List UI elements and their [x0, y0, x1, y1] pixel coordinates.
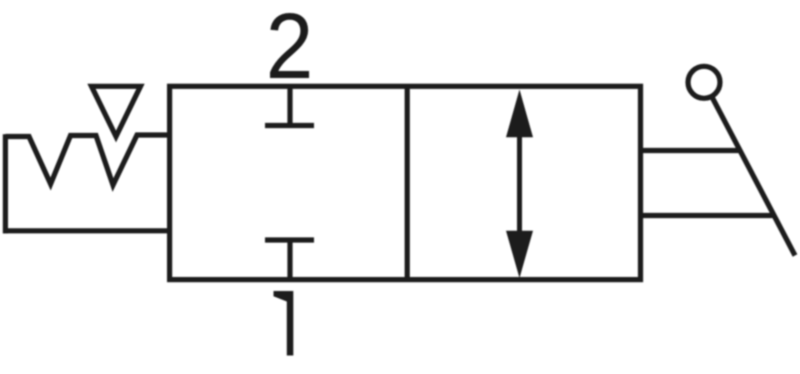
cell divider: [405, 86, 410, 279]
svg-text:2: 2: [266, 0, 314, 98]
port 2 blocked bar: [265, 123, 314, 128]
flow arrow shaft: [517, 134, 522, 234]
port 1 blocked stem: [287, 240, 292, 280]
valve body outline: [170, 86, 641, 279]
flow arrow head down: [506, 231, 533, 278]
spring box bottom edge: [3, 228, 170, 233]
lever link upper: [641, 148, 741, 153]
spring zigzag: [5, 135, 169, 185]
port 2 blocked stem: [287, 86, 292, 125]
roller circle: [688, 66, 720, 98]
spring box left edge: [3, 134, 8, 233]
flow arrow head up: [506, 90, 533, 138]
port 1 label: [274, 291, 294, 356]
lever arm: [712, 97, 795, 256]
port 1 blocked bar: [265, 237, 314, 242]
exhaust triangle: [92, 86, 141, 136]
lever link lower: [641, 213, 775, 218]
